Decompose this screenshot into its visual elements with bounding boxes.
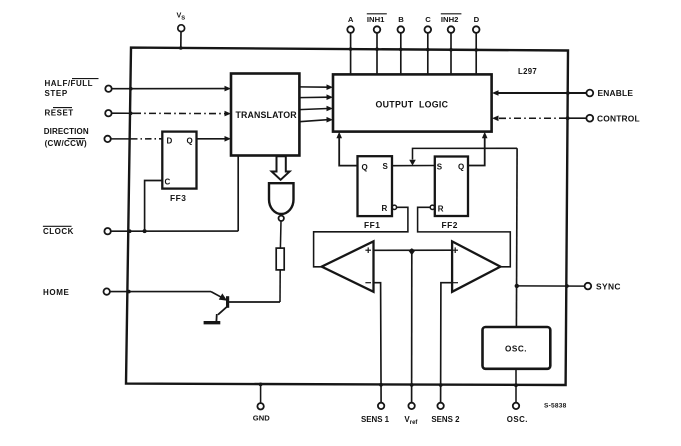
wire CLOCK to translator bottom — [111, 230, 238, 232]
wire ENABLE to output logic — [498, 92, 586, 94]
svg-text:FF1: FF1 — [364, 220, 380, 230]
svg-text:OSC.: OSC. — [505, 345, 527, 354]
svg-text:OUTPUT LOGIC: OUTPUT LOGIC — [376, 100, 449, 110]
SENS1 pin — [378, 403, 384, 409]
pin B — [398, 26, 405, 33]
svg-text:GND: GND — [253, 414, 270, 423]
FF2.R bubble — [430, 205, 434, 209]
svg-text:FF3: FF3 — [170, 193, 186, 203]
wire translator to output logic (4 lines) — [299, 87, 327, 122]
svg-text:OSC.: OSC. — [507, 415, 528, 424]
svg-text:Q: Q — [187, 137, 193, 146]
svg-text:INH2: INH2 — [441, 15, 459, 24]
CONTROL pin — [586, 115, 593, 122]
pin INH2 — [448, 26, 455, 33]
svg-text:ENABLE: ENABLE — [598, 88, 634, 98]
svg-text:Vref: Vref — [404, 415, 418, 426]
svg-text:R: R — [438, 204, 444, 213]
pin D — [473, 26, 480, 33]
svg-text:STEP: STEP — [45, 89, 68, 98]
DIRECTION (CW/CCW) pin — [44, 127, 111, 148]
pin C — [425, 26, 432, 33]
wire HALF/FULL to translator — [112, 88, 227, 90]
svg-text:CONTROL: CONTROL — [597, 113, 640, 123]
wire S-S line — [392, 165, 435, 167]
HALF/FULL STEP pin — [45, 79, 112, 98]
svg-text:L297: L297 — [518, 67, 537, 76]
svg-text:C: C — [425, 15, 431, 24]
resistor — [276, 248, 284, 270]
svg-text:D: D — [474, 15, 480, 24]
wire CONTROL to output logic (dash-dot) — [566, 117, 586, 119]
comparator 1 (points left) — [322, 241, 374, 291]
FF1 flip-flop — [358, 156, 393, 216]
NAND gate (pointing down) — [269, 183, 294, 214]
svg-text:FF2: FF2 — [442, 220, 458, 230]
wire oscillator vertical / SYNC — [515, 148, 518, 327]
svg-text:S: S — [437, 163, 443, 172]
wire comparator2 out to FF2.R — [418, 207, 511, 266]
svg-text:INH1: INH1 — [367, 15, 385, 24]
SENS2 pin — [437, 403, 443, 409]
ground — [204, 321, 221, 324]
wire SENS2 — [441, 283, 453, 403]
svg-text:C: C — [165, 178, 171, 187]
svg-text:HOME: HOME — [43, 288, 69, 297]
svg-text:SYNC: SYNC — [596, 282, 621, 292]
wire DIRECTION to FF3 D (dash-dot) — [111, 138, 131, 140]
svg-text:TRANSLATOR: TRANSLATOR — [236, 110, 298, 120]
wire OSC block to OSC pin — [515, 369, 517, 403]
svg-text:VS: VS — [177, 11, 186, 22]
svg-text:HALF/FULL: HALF/FULL — [45, 79, 94, 88]
wire + inputs / Vref — [374, 249, 453, 251]
SYNC pin — [517, 285, 585, 287]
wire gate to resistor — [279, 221, 282, 248]
comparator 2 (points right) — [452, 241, 500, 291]
svg-text:B: B — [398, 15, 404, 24]
svg-text:Q: Q — [458, 163, 464, 172]
svg-text:D: D — [167, 137, 173, 146]
OUTPUT LOGIC block — [333, 74, 492, 131]
svg-text:CLOCK: CLOCK — [43, 227, 74, 236]
wire resistor to transistor base — [279, 270, 281, 302]
OSC pin — [513, 403, 519, 409]
svg-text:S-5838: S-5838 — [544, 403, 567, 410]
RESET pin — [45, 108, 112, 118]
wire FF3.Q to translator — [197, 138, 227, 140]
OSC block — [483, 327, 551, 369]
wire RESET to translator (dash-dot) — [112, 112, 134, 114]
wire FF2.Q up to output logic — [468, 137, 485, 166]
big hollow arrow translator to gate — [272, 156, 290, 180]
node CLOCK/FF3.C junction — [143, 229, 147, 233]
pin A — [347, 26, 354, 33]
wire HOME to transistor — [110, 291, 211, 293]
Vref pin — [408, 403, 414, 409]
svg-text:SENS 1: SENS 1 — [361, 415, 390, 424]
CLOCK pin — [43, 226, 111, 236]
Vs pin — [177, 11, 186, 50]
svg-text:S: S — [383, 162, 389, 171]
wire SENS1 — [374, 283, 382, 403]
wire FF1.Q up to output logic — [339, 137, 357, 166]
ENABLE pin — [586, 90, 593, 97]
TRANSLATOR block — [231, 74, 299, 156]
svg-text:DIRECTION: DIRECTION — [44, 127, 89, 136]
svg-text:(CW/CCW): (CW/CCW) — [45, 139, 87, 148]
FF3 D flip-flop — [162, 132, 196, 189]
transistor (HOME output) — [226, 296, 229, 308]
wire FF3 C — [145, 181, 163, 232]
GND pin — [260, 384, 262, 403]
pin INH1 — [374, 26, 381, 33]
svg-text:A: A — [348, 15, 354, 24]
chip boundary box — [126, 48, 568, 385]
svg-text:R: R — [382, 204, 388, 213]
svg-text:RESET: RESET — [45, 108, 74, 117]
svg-text:Q: Q — [362, 163, 368, 172]
wire comparator1 out to FF1.R — [314, 207, 408, 266]
FF2 flip-flop — [435, 157, 468, 217]
FF1.R bubble — [392, 205, 396, 209]
wire oscillator to S inputs — [413, 148, 518, 159]
svg-text:SENS 2: SENS 2 — [431, 415, 460, 424]
HOME pin — [43, 288, 110, 297]
